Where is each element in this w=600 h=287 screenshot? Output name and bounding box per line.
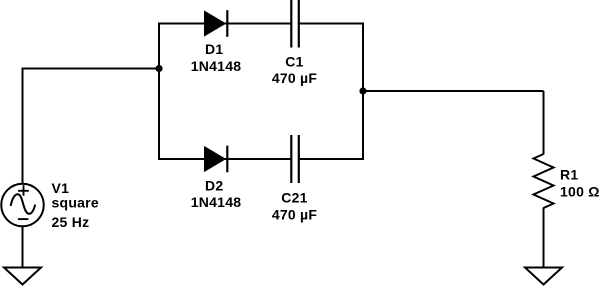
voltage source V1 [1, 184, 44, 227]
svg-text:100 Ω: 100 Ω [560, 184, 600, 200]
wire left vertical bus (node A) [158, 23, 160, 161]
wire top branch left (node A to D1 anode) [159, 23, 291, 25]
wire top branch right (C1 to node B) [299, 23, 363, 25]
svg-text:square: square [52, 195, 99, 211]
capacitor C21 [291, 135, 299, 183]
wire right vertical bus (node B) [362, 23, 364, 161]
wire bottom branch left (node A to D2 anode) [159, 158, 291, 160]
wire node B to R1 [363, 90, 544, 92]
svg-text:470 µF: 470 µF [272, 70, 318, 86]
wire bottom branch right (C21 to node B) [299, 158, 363, 160]
svg-text:C21: C21 [281, 190, 307, 206]
junction node B dot [359, 87, 366, 94]
resistor R1 [534, 154, 554, 208]
svg-text:1N4148: 1N4148 [191, 194, 242, 210]
junction node A dot [155, 65, 162, 72]
diode D2 [205, 146, 228, 173]
svg-text:C1: C1 [285, 53, 303, 69]
wire R1 bottom lead [543, 208, 545, 269]
svg-text:1N4148: 1N4148 [191, 58, 242, 74]
ground right [525, 268, 562, 285]
svg-text:470 µF: 470 µF [272, 207, 318, 223]
diode D1 [205, 10, 228, 37]
wire R1 top lead [543, 91, 545, 155]
capacitor C1 [291, 0, 299, 48]
svg-text:25 Hz: 25 Hz [52, 214, 90, 230]
wire source bottom lead [22, 226, 24, 268]
svg-text:D2: D2 [205, 178, 223, 194]
svg-text:D1: D1 [205, 41, 223, 57]
wire from source to node A [23, 68, 161, 70]
svg-text:R1: R1 [560, 167, 578, 183]
wire source top lead [22, 68, 24, 185]
ground left [4, 268, 41, 285]
